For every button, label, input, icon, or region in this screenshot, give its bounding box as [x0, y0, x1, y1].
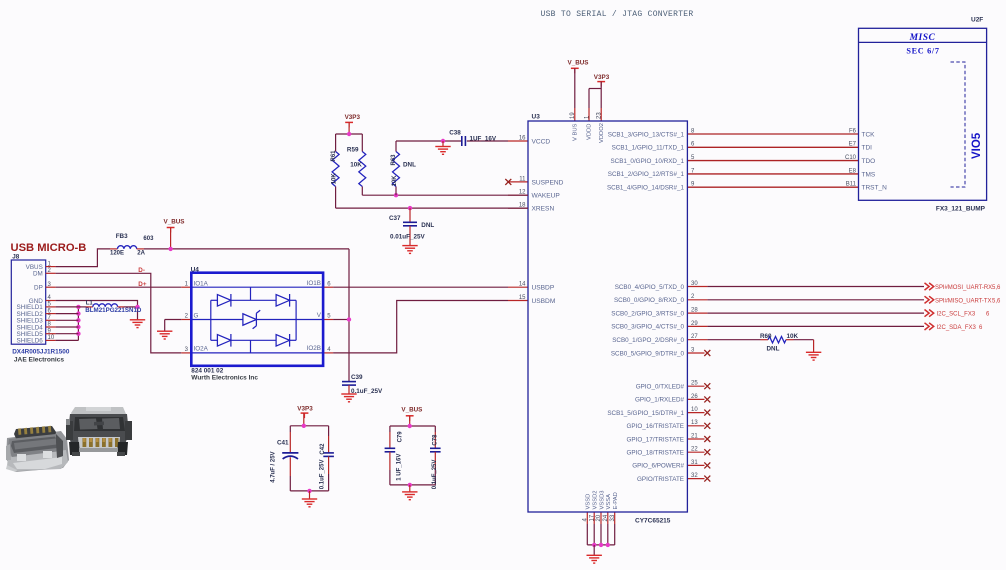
- svg-text:19: 19: [570, 112, 576, 119]
- svg-text:R63: R63: [391, 154, 397, 166]
- svg-text:SCB0_1/GPO_2/DSR#_0: SCB0_1/GPO_2/DSR#_0: [612, 337, 684, 344]
- svg-text:USB MICRO-B: USB MICRO-B: [11, 242, 87, 254]
- svg-text:GPIO_16/TRISTATE: GPIO_16/TRISTATE: [626, 423, 684, 430]
- svg-text:FB3: FB3: [116, 233, 128, 240]
- svg-text:R60: R60: [760, 333, 772, 340]
- svg-text:IO2A: IO2A: [194, 345, 209, 352]
- svg-text:16: 16: [519, 135, 526, 141]
- svg-text:U2F: U2F: [971, 16, 983, 23]
- svg-text:DP: DP: [34, 285, 43, 292]
- svg-text:11: 11: [519, 176, 526, 182]
- svg-text:C39: C39: [351, 374, 363, 381]
- svg-text:BLM21PG221SN1D: BLM21PG221SN1D: [85, 307, 142, 314]
- svg-text:DM: DM: [33, 271, 43, 278]
- svg-text:D+: D+: [138, 281, 147, 288]
- svg-text:SCB0_4/GPIO_5/TXD_0: SCB0_4/GPIO_5/TXD_0: [615, 284, 685, 291]
- svg-text:IO1A: IO1A: [194, 281, 209, 288]
- svg-text:V3P3: V3P3: [345, 114, 361, 121]
- svg-text:IO1B: IO1B: [307, 280, 321, 287]
- svg-text:E-PAD: E-PAD: [613, 492, 619, 509]
- svg-text:VCCD: VCCD: [532, 138, 551, 145]
- svg-text:TDI: TDI: [862, 145, 873, 152]
- svg-text:V3P3: V3P3: [594, 74, 610, 81]
- svg-text:VSSD2: VSSD2: [593, 490, 599, 509]
- svg-text:10K: 10K: [332, 173, 338, 185]
- svg-text:GPIO_17/TRISTATE: GPIO_17/TRISTATE: [626, 436, 684, 443]
- svg-text:603: 603: [143, 236, 154, 242]
- svg-text:C38: C38: [449, 129, 461, 136]
- svg-text:SCB0_0/GPIO_8/RXD_0: SCB0_0/GPIO_8/RXD_0: [614, 297, 684, 304]
- svg-text:USBDM: USBDM: [532, 298, 556, 305]
- svg-text:VDDD: VDDD: [587, 124, 593, 140]
- svg-text:1UF_16V: 1UF_16V: [470, 136, 497, 143]
- svg-text:V_BUS: V_BUS: [568, 59, 589, 66]
- svg-text:SEC 6/7: SEC 6/7: [906, 46, 939, 55]
- svg-text:E7: E7: [849, 142, 857, 148]
- svg-text:C41: C41: [277, 439, 289, 446]
- svg-text:TRST_N: TRST_N: [862, 185, 888, 192]
- svg-text:I2C_SDA_FX3: I2C_SDA_FX3: [937, 325, 977, 331]
- svg-text:XRESN: XRESN: [532, 206, 555, 213]
- svg-text:R59: R59: [347, 146, 359, 153]
- svg-text:USB TO SERIAL / JTAG CONVERTER: USB TO SERIAL / JTAG CONVERTER: [540, 10, 693, 19]
- svg-text:0.1uF_25V: 0.1uF_25V: [351, 388, 383, 395]
- svg-text:SCB0_5/GPIO_9/DTR#_0: SCB0_5/GPIO_9/DTR#_0: [611, 350, 685, 357]
- svg-text:B11: B11: [846, 182, 857, 188]
- svg-text:23: 23: [597, 112, 603, 119]
- svg-text:SCB1_1/GPIO_11/TXD_1: SCB1_1/GPIO_11/TXD_1: [612, 145, 685, 152]
- svg-text:14: 14: [519, 282, 526, 288]
- svg-text:5,6: 5,6: [992, 285, 1001, 291]
- svg-text:10K: 10K: [350, 162, 362, 169]
- svg-text:E8: E8: [849, 168, 857, 174]
- svg-text:VSSD3: VSSD3: [599, 490, 605, 509]
- svg-text:L1: L1: [86, 301, 94, 307]
- svg-text:C78: C78: [433, 434, 439, 446]
- svg-text:I2C_SCL_FX3: I2C_SCL_FX3: [937, 312, 976, 318]
- svg-text:WAKEUP: WAKEUP: [532, 193, 561, 200]
- svg-text:V_BUS: V_BUS: [164, 218, 185, 225]
- svg-text:C10: C10: [845, 155, 857, 161]
- svg-text:15: 15: [519, 295, 526, 301]
- svg-text:TDO: TDO: [862, 158, 876, 165]
- svg-text:SCB0_2/GPIO_3/RTS#_0: SCB0_2/GPIO_3/RTS#_0: [611, 310, 684, 317]
- svg-text:2A: 2A: [137, 251, 145, 257]
- svg-text:SPI#MISO_UART-TX: SPI#MISO_UART-TX: [935, 298, 991, 304]
- svg-text:10K: 10K: [787, 333, 799, 340]
- svg-text:SPI#MOSI_UART-RX: SPI#MOSI_UART-RX: [935, 285, 992, 291]
- svg-text:Wurth Electronics Inc: Wurth Electronics Inc: [191, 375, 258, 382]
- svg-text:5,6: 5,6: [992, 298, 1001, 304]
- svg-text:TMS: TMS: [862, 171, 876, 178]
- svg-text:D-: D-: [138, 267, 145, 274]
- svg-text:GPIO_18/TRISTATE: GPIO_18/TRISTATE: [626, 450, 684, 457]
- svg-text:0.01uF_25V: 0.01uF_25V: [390, 233, 425, 240]
- svg-text:JAE Electronics: JAE Electronics: [14, 356, 65, 363]
- svg-text:1 UF_16V: 1 UF_16V: [397, 454, 403, 481]
- svg-text:10K: 10K: [392, 175, 398, 187]
- svg-text:VDDO2: VDDO2: [599, 123, 605, 143]
- svg-text:V_BUS: V_BUS: [401, 406, 422, 413]
- svg-text:V BUS: V BUS: [572, 123, 578, 141]
- svg-text:U4: U4: [191, 267, 200, 274]
- svg-text:120E: 120E: [110, 251, 124, 257]
- svg-text:MISC: MISC: [909, 33, 936, 43]
- svg-text:C37: C37: [389, 215, 401, 222]
- svg-text:CY7C65215: CY7C65215: [635, 518, 671, 525]
- svg-text:0.1uF_25V: 0.1uF_25V: [432, 460, 438, 490]
- svg-text:G: G: [194, 313, 199, 320]
- svg-text:SHIELD6: SHIELD6: [17, 338, 44, 345]
- svg-text:VIO5: VIO5: [971, 132, 983, 159]
- svg-text:SCB1_5/GPIO_15/DTR#_1: SCB1_5/GPIO_15/DTR#_1: [607, 410, 684, 417]
- svg-text:824 001 02: 824 001 02: [191, 367, 223, 374]
- svg-text:USBDP: USBDP: [532, 285, 555, 292]
- svg-text:GPIO_0/TXLED#: GPIO_0/TXLED#: [636, 384, 685, 391]
- svg-text:R61: R61: [331, 150, 337, 162]
- svg-text:SCB1_4/GPIO_14/DSR#_1: SCB1_4/GPIO_14/DSR#_1: [607, 185, 685, 192]
- svg-text:DNL: DNL: [767, 346, 780, 353]
- svg-text:GPIO_1/RXLED#: GPIO_1/RXLED#: [635, 397, 684, 404]
- svg-text:SCB1_3/GPIO_13/CTS#_1: SCB1_3/GPIO_13/CTS#_1: [608, 131, 685, 138]
- svg-text:C42: C42: [320, 443, 326, 455]
- svg-text:DNL: DNL: [421, 222, 434, 229]
- svg-text:TCK: TCK: [862, 131, 876, 138]
- svg-text:F6: F6: [849, 128, 857, 134]
- svg-text:IO2B: IO2B: [307, 345, 321, 352]
- svg-text:V3P3: V3P3: [297, 405, 313, 412]
- svg-text:DNL: DNL: [403, 162, 416, 169]
- svg-text:DX4R005JJ1R1500: DX4R005JJ1R1500: [12, 348, 70, 355]
- svg-text:C79: C79: [397, 431, 403, 443]
- svg-text:0.1uF_25V: 0.1uF_25V: [320, 460, 326, 490]
- svg-text:VSSA: VSSA: [606, 494, 612, 510]
- svg-text:VSSD: VSSD: [586, 494, 592, 510]
- svg-text:SCB1_0/GPIO_10/RXD_1: SCB1_0/GPIO_10/RXD_1: [610, 158, 684, 165]
- svg-text:SCB0_3/GPIO_4/CTS#_0: SCB0_3/GPIO_4/CTS#_0: [611, 324, 684, 331]
- svg-text:4.7uF / 25V: 4.7uF / 25V: [271, 451, 277, 482]
- svg-text:GPIO_6/POWER#: GPIO_6/POWER#: [632, 463, 684, 470]
- svg-text:SUSPEND: SUSPEND: [532, 179, 564, 186]
- svg-text:SCB1_2/GPIO_12/RTS#_1: SCB1_2/GPIO_12/RTS#_1: [608, 171, 685, 178]
- svg-text:FX3_121_BUMP: FX3_121_BUMP: [936, 206, 986, 213]
- svg-text:U3: U3: [532, 114, 541, 121]
- svg-text:GPIO/TRISTATE: GPIO/TRISTATE: [637, 476, 684, 483]
